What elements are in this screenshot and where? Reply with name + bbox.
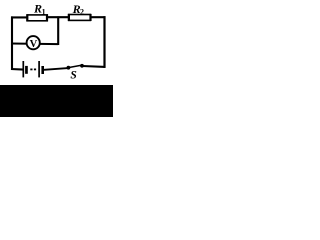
wire switch to bottom-right corner [83, 65, 106, 68]
resistor R2 [69, 14, 91, 21]
wire voltmeter branch horizontal [11, 43, 58, 46]
svg-text:S: S [70, 70, 76, 82]
wire bottom-left segment [11, 68, 24, 71]
resistor R1 [27, 14, 47, 21]
svg-text:1: 1 [42, 8, 46, 17]
svg-text:2: 2 [80, 8, 84, 17]
battery cell 2 short thick plate [41, 66, 44, 74]
wire top-middle segment [46, 16, 70, 18]
wire left side [11, 16, 13, 70]
label R1 [33, 2, 46, 17]
wire top-right segment [90, 16, 106, 18]
battery cell 2 long plate [38, 61, 40, 77]
svg-text:V: V [30, 39, 38, 50]
battery cell 1 short thick plate [25, 66, 28, 74]
switch S lever (open) [69, 65, 82, 67]
voltmeter U1 (circle) [27, 36, 40, 49]
label R2 [72, 2, 84, 17]
switch S pivot dot [67, 66, 71, 70]
wire voltmeter branch vertical riser [57, 16, 59, 45]
battery dashes (omitted cells) [30, 69, 36, 71]
battery cell 1 long plate [22, 61, 24, 77]
switch S contact dot [80, 64, 84, 68]
wire right side [103, 16, 105, 68]
wire battery to switch [44, 68, 68, 70]
wire top-left segment [11, 16, 28, 18]
black bottom bar [0, 85, 113, 117]
